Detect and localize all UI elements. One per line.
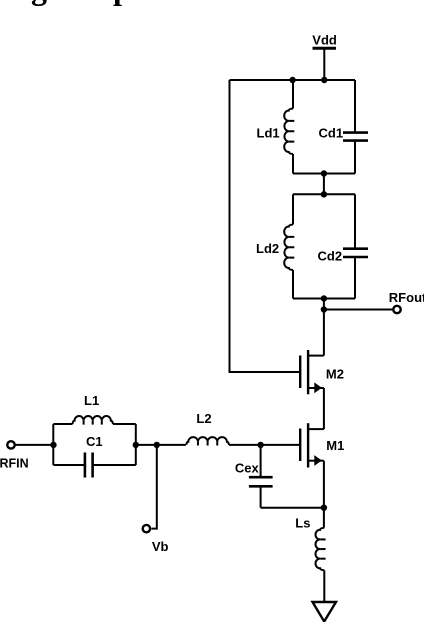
node rail/Vdd: [321, 77, 327, 83]
svg-text:L2: L2: [196, 411, 211, 426]
wire tank2 bottom edge: [293, 298, 355, 300]
svg-text:Cd2: Cd2: [318, 249, 343, 264]
svg-text:Ld1: Ld1: [257, 125, 280, 140]
node rail/tank1-left: [289, 77, 295, 83]
inductor L2: [186, 411, 229, 446]
capacitor C1: [53, 434, 136, 478]
node tank2 bottom: [321, 295, 327, 301]
power symbol Vdd: [312, 33, 337, 81]
capacitor Cex: [235, 445, 273, 508]
svg-text:M2: M2: [326, 367, 344, 382]
inductor Ls: [295, 516, 325, 571]
svg-text:M1: M1: [326, 438, 344, 453]
svg-text:Cd1: Cd1: [319, 126, 344, 141]
node input tank left: [50, 442, 56, 448]
transistor M2: [299, 350, 344, 394]
wire M1 source down: [323, 461, 325, 528]
transistor M1: [299, 423, 344, 467]
wire Vb branch: [151, 445, 156, 529]
wire main input line: [136, 444, 186, 446]
node Vb branch: [154, 442, 160, 448]
svg-text:Cex: Cex: [235, 461, 260, 476]
wire input tank left vertical: [52, 424, 54, 465]
node tank2 top: [321, 191, 327, 197]
node input tank right: [133, 442, 139, 448]
svg-text:Vdd: Vdd: [312, 33, 337, 48]
inductor L1: [53, 393, 136, 425]
wire cascode gate bypass (left vertical + horizontal to M2 gate): [230, 80, 300, 372]
svg-text:Ld2: Ld2: [256, 241, 279, 256]
node source/Cex: [321, 505, 327, 511]
svg-text:C1: C1: [86, 434, 103, 449]
wire Cex return to source: [261, 507, 324, 509]
terminal RFout: [393, 306, 400, 313]
wire tank2 top edge: [293, 193, 355, 195]
svg-text:Ls: Ls: [295, 516, 310, 531]
svg-text:Vb: Vb: [152, 539, 169, 554]
svg-text:L1: L1: [84, 393, 99, 408]
node tank1 bottom: [321, 170, 327, 176]
node RFout junction: [321, 306, 327, 312]
inductor Ld1: [257, 80, 295, 174]
wire L2 to M1 gate: [229, 444, 299, 446]
svg-text:g: g: [31, 0, 47, 6]
wire tank2 to RFout junction: [323, 299, 325, 356]
wire M2 source to M1 drain: [323, 388, 325, 429]
capacitor Cd2: [318, 194, 369, 298]
capacitor Cd1: [319, 80, 369, 174]
wire RFIN to input tank: [15, 444, 54, 446]
wire Ls to ground: [323, 570, 325, 601]
wire input tank right vertical: [135, 424, 137, 465]
svg-text:RFout: RFout: [389, 290, 424, 305]
inductor Ld2: [256, 194, 294, 298]
terminal Vb: [143, 525, 150, 532]
svg-text:RFIN: RFIN: [0, 456, 29, 470]
svg-text:p: p: [113, 0, 131, 6]
wire tank1 bottom edge: [293, 173, 355, 175]
wire top rail: [230, 79, 356, 81]
wire RFout: [324, 309, 393, 311]
terminal RFIN: [7, 441, 14, 448]
wire tank1 to tank2: [323, 174, 325, 195]
node Cex branch: [257, 442, 263, 448]
ground: [313, 602, 337, 622]
